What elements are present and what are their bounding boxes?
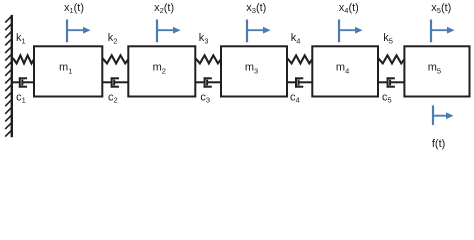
svg-text:c4: c4 <box>290 92 300 105</box>
svg-text:x3(t): x3(t) <box>246 2 266 15</box>
svg-text:k4: k4 <box>291 32 301 45</box>
svg-text:x2(t): x2(t) <box>154 2 174 15</box>
svg-text:m2: m2 <box>153 62 166 76</box>
svg-text:c1: c1 <box>16 92 26 105</box>
svg-text:m5: m5 <box>428 62 441 76</box>
svg-text:x4(t): x4(t) <box>339 2 359 15</box>
svg-text:m4: m4 <box>336 62 349 76</box>
svg-text:m1: m1 <box>59 62 72 76</box>
svg-text:k5: k5 <box>383 32 393 45</box>
svg-text:k1: k1 <box>16 32 26 45</box>
svg-text:c2: c2 <box>108 92 118 105</box>
svg-text:f(t): f(t) <box>432 138 445 150</box>
svg-text:x5(t): x5(t) <box>431 2 451 15</box>
svg-text:x1(t): x1(t) <box>64 2 84 15</box>
svg-text:k2: k2 <box>108 32 118 45</box>
svg-text:k3: k3 <box>199 32 209 45</box>
svg-text:m3: m3 <box>245 62 258 76</box>
svg-text:c3: c3 <box>200 92 210 105</box>
svg-text:c5: c5 <box>382 92 392 105</box>
